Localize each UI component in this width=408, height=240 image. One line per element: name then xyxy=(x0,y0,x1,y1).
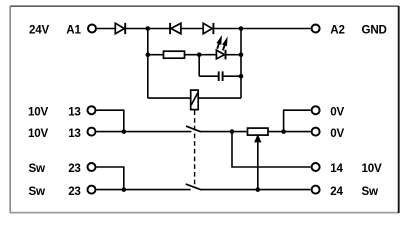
node capacitor branch xyxy=(197,52,202,57)
potentiometer R2 xyxy=(248,128,269,135)
terminal 13b xyxy=(88,128,96,136)
svg-text:13: 13 xyxy=(68,105,81,118)
svg-text:14: 14 xyxy=(330,162,343,175)
wire right vertical bus xyxy=(240,29,242,99)
wire coil row left xyxy=(148,97,191,99)
svg-text:10V: 10V xyxy=(28,127,48,140)
node resistor-row left xyxy=(146,52,151,57)
svg-text:23: 23 xyxy=(68,162,81,175)
pot wiper arrow xyxy=(255,135,261,189)
terminal 24 xyxy=(312,186,320,194)
svg-text:10V: 10V xyxy=(28,105,48,118)
svg-text:0V: 0V xyxy=(330,105,344,118)
svg-text:24: 24 xyxy=(330,185,343,198)
terminal 23a xyxy=(88,163,96,171)
svg-text:GND: GND xyxy=(362,24,387,37)
wire 14 branch xyxy=(232,132,311,167)
svg-text:Sw: Sw xyxy=(29,162,47,175)
node junction top-right xyxy=(239,26,244,31)
svg-text:23: 23 xyxy=(68,185,81,198)
terminal 13a xyxy=(88,106,96,114)
wire pot to 0V xyxy=(268,131,311,133)
svg-text:Sw: Sw xyxy=(362,185,380,198)
wire D1 to D2 xyxy=(125,28,170,30)
node capacitor right xyxy=(239,74,244,79)
terminal 0V-2 xyxy=(312,128,320,136)
svg-text:13: 13 xyxy=(68,127,81,140)
node 0V merge xyxy=(281,129,286,134)
svg-text:A2: A2 xyxy=(330,24,344,37)
node rows 13 merge xyxy=(122,129,127,134)
terminal 0V-1 xyxy=(312,106,320,114)
node pot left / 14 branch xyxy=(230,129,235,134)
wire switch S1 to pot xyxy=(200,131,247,133)
wire 0V-1 branch xyxy=(284,110,311,131)
switch S2 blade xyxy=(186,184,202,190)
mechanical link (dashed) xyxy=(194,110,196,185)
terminal A1 xyxy=(88,25,96,33)
wire to capacitor xyxy=(199,75,219,77)
wire 23b to switch S2 xyxy=(97,189,191,191)
wire 23a to corner xyxy=(97,167,124,190)
switch S1 blade xyxy=(186,126,201,132)
wire 13b to switch xyxy=(97,131,192,133)
diode D2 (reversed) xyxy=(170,23,181,34)
LED emission arrows xyxy=(217,37,227,51)
wire switch S2 to 24 xyxy=(201,189,311,191)
terminal A2 xyxy=(312,25,320,33)
svg-text:24V: 24V xyxy=(29,24,49,37)
svg-text:Sw: Sw xyxy=(29,185,47,198)
relay coil K1 xyxy=(191,90,199,110)
wire to resistor xyxy=(148,54,164,56)
terminal 23b xyxy=(88,186,96,194)
diode D3 xyxy=(203,23,213,34)
wire D3 to A2 xyxy=(213,28,310,30)
diode D1 xyxy=(115,23,125,34)
wire D2 to D3 xyxy=(181,28,203,30)
svg-text:10V: 10V xyxy=(362,162,382,175)
svg-text:0V: 0V xyxy=(330,127,344,140)
node wiper junction xyxy=(255,187,260,192)
node LED right xyxy=(239,52,244,57)
wire resistor to LED xyxy=(185,54,217,56)
LED D4 xyxy=(216,50,225,60)
wire A1 to D1 xyxy=(97,28,115,30)
node junction top-left xyxy=(146,26,151,31)
wire LED to right bus xyxy=(226,54,242,56)
wire capacitor to right bus xyxy=(223,75,241,77)
node rows 23 merge xyxy=(122,187,127,192)
wire coil row right xyxy=(198,97,241,99)
wire capacitor branch down xyxy=(198,55,200,76)
wire 13a to corner xyxy=(97,110,124,131)
terminal 14 xyxy=(312,163,320,171)
resistor R1 xyxy=(164,51,185,58)
svg-text:A1: A1 xyxy=(66,24,81,37)
capacitor C1 xyxy=(219,71,223,81)
wire left vertical bus xyxy=(147,29,149,99)
